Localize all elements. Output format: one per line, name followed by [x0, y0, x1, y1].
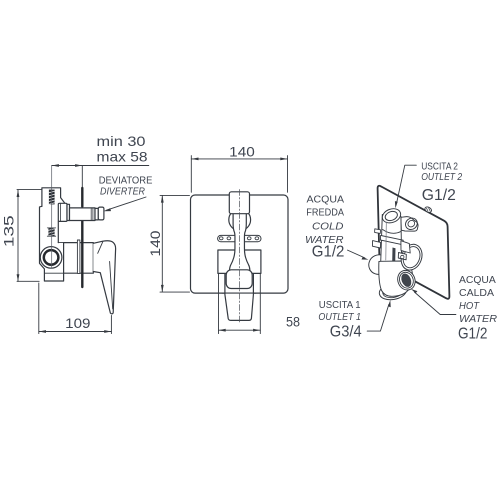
svg-text:DEVIATORE: DEVIATORE — [99, 176, 153, 187]
svg-text:109: 109 — [65, 315, 91, 331]
small fitting lines mid — [47, 228, 55, 236]
cartridge flange rings — [398, 241, 426, 273]
centerline front — [239, 190, 241, 325]
svg-text:G1/2: G1/2 — [312, 244, 345, 261]
arrow calda — [411, 289, 418, 293]
arrow 58 left — [219, 329, 226, 332]
svg-text:COLD: COLD — [312, 222, 344, 233]
dim 140 top line — [191, 158, 287, 160]
leader calda — [415, 292, 456, 314]
hot port outer ring — [395, 268, 418, 293]
inlet pipe rect — [42, 188, 65, 207]
arrow right min30 — [75, 164, 82, 167]
thread hatch top — [49, 190, 55, 205]
arrow 135 bottom — [17, 274, 20, 281]
bracket hole 4 — [255, 237, 259, 240]
arrow 140 right — [280, 158, 287, 161]
cold inlet dome — [366, 252, 393, 278]
plate 140x140 — [191, 195, 289, 293]
tube inner line — [385, 222, 388, 260]
handle front fill — [225, 274, 254, 320]
dim 135 vertical line — [17, 190, 19, 282]
plate edge screw bump — [424, 206, 432, 214]
arrow 109 right — [104, 330, 111, 333]
bottom outlet dome — [378, 281, 408, 302]
ext lines 140 left — [160, 195, 190, 292]
svg-text:HOT: HOT — [459, 301, 480, 312]
body outline — [40, 206, 64, 281]
handle lever — [93, 241, 115, 314]
diverter cap grooves — [95, 208, 98, 220]
bottom outlet inner arc — [382, 284, 404, 299]
escutcheon strip edge-on — [77, 240, 80, 273]
arrow fredda — [362, 257, 369, 260]
housing top small ext — [45, 243, 64, 274]
svg-text:ACQUA: ACQUA — [307, 194, 345, 205]
ext lines 58 — [219, 274, 261, 334]
hot port dark hole — [399, 272, 413, 288]
arrow 58 right — [253, 329, 260, 332]
diverter cap knob — [98, 207, 104, 220]
arrow 140 left top — [161, 195, 164, 202]
leader uscita1 — [367, 304, 389, 331]
arrow 140 left — [191, 158, 198, 161]
ext line 135 bottom — [17, 280, 39, 282]
arrow 140 left bottom — [161, 285, 164, 292]
dim 140 left line — [161, 195, 163, 292]
lower housing — [379, 261, 413, 296]
slot dark — [392, 248, 395, 263]
arrow 109 left — [39, 330, 46, 333]
ball joint — [229, 209, 251, 231]
wall line thin top — [81, 166, 83, 189]
thread hatch mid — [48, 228, 54, 236]
dim min30/max58 line — [52, 165, 149, 167]
svg-text:G1/2: G1/2 — [458, 326, 487, 343]
stub end inner — [407, 219, 416, 228]
ext line 135 top — [17, 189, 42, 191]
arrow uscita2 — [395, 201, 398, 208]
svg-text:OUTLET 2: OUTLET 2 — [421, 172, 462, 183]
svg-text:G1/2: G1/2 — [422, 187, 456, 204]
bracket hole 1 — [219, 237, 223, 240]
diverter flange inner line — [59, 203, 61, 221]
bracket hole 2 — [227, 237, 231, 240]
diverter ring — [67, 204, 70, 220]
body right edge under diverter — [57, 221, 59, 242]
handle front sides — [225, 274, 254, 320]
svg-text:USCITA 1: USCITA 1 — [319, 300, 361, 311]
svg-text:135: 135 — [0, 215, 16, 247]
bell base — [226, 270, 252, 289]
ext line 109 right — [110, 316, 112, 334]
svg-text:FREDDA: FREDDA — [306, 208, 344, 219]
diverter stub upper right — [401, 217, 418, 232]
main tube — [381, 215, 402, 263]
port circle outer — [40, 247, 62, 269]
mounting bracket bar — [218, 235, 261, 241]
dim 58 line — [219, 329, 261, 331]
top port outer ellipse — [380, 206, 402, 225]
upper left tab — [375, 229, 381, 234]
leader fredda — [348, 250, 365, 258]
diverter flange — [58, 203, 67, 221]
ext lines 140 top — [191, 156, 287, 193]
cartridge neck — [401, 241, 410, 253]
diverter cylinder — [70, 208, 96, 221]
plate bottom edge over handle — [222, 292, 256, 294]
svg-text:max 58: max 58 — [97, 148, 148, 164]
port circle inner thick — [44, 250, 59, 265]
top port inner ellipse — [384, 210, 399, 222]
cartridge housing — [64, 243, 94, 274]
handle crease — [98, 241, 103, 253]
ext line 109 left — [38, 283, 40, 334]
arrow diverter — [103, 208, 111, 211]
hot port mid ring — [397, 270, 415, 290]
svg-text:G3/4: G3/4 — [330, 323, 362, 340]
svg-text:CALDA: CALDA — [459, 288, 494, 299]
bracket arm right persp — [398, 253, 406, 260]
bracket screw right — [401, 255, 404, 258]
bracket arm left persp — [372, 241, 380, 248]
svg-text:ACQUA: ACQUA — [459, 275, 496, 286]
wall line thick — [81, 188, 83, 287]
bracket hole 3 — [247, 237, 251, 240]
stub end face — [403, 216, 419, 232]
leader diverter — [107, 197, 147, 210]
collar band — [380, 235, 403, 244]
valve body square — [218, 250, 261, 273]
svg-text:min 30: min 30 — [97, 133, 146, 149]
svg-text:WATER: WATER — [459, 314, 497, 325]
svg-text:DIVERTER: DIVERTER — [100, 187, 145, 198]
svg-text:USCITA 2: USCITA 2 — [421, 161, 458, 172]
diverter knob front — [229, 192, 249, 214]
svg-text:58: 58 — [286, 314, 300, 330]
svg-text:140: 140 — [147, 230, 163, 256]
top sleeve bottom arc — [383, 230, 401, 234]
tilted plate — [378, 186, 450, 299]
svg-text:OUTLET 1: OUTLET 1 — [318, 312, 361, 323]
diverter cylinder grooves — [91, 208, 93, 221]
arrow left min30 — [52, 164, 59, 167]
dim 109 line — [39, 331, 112, 333]
arrow 135 top — [17, 190, 20, 197]
stem — [230, 213, 250, 271]
arrow uscita1 — [388, 300, 391, 307]
leader uscita2 — [397, 165, 417, 203]
centerline inlet axis — [51, 166, 53, 269]
svg-text:140: 140 — [229, 143, 255, 159]
handle highlight line — [110, 262, 113, 309]
